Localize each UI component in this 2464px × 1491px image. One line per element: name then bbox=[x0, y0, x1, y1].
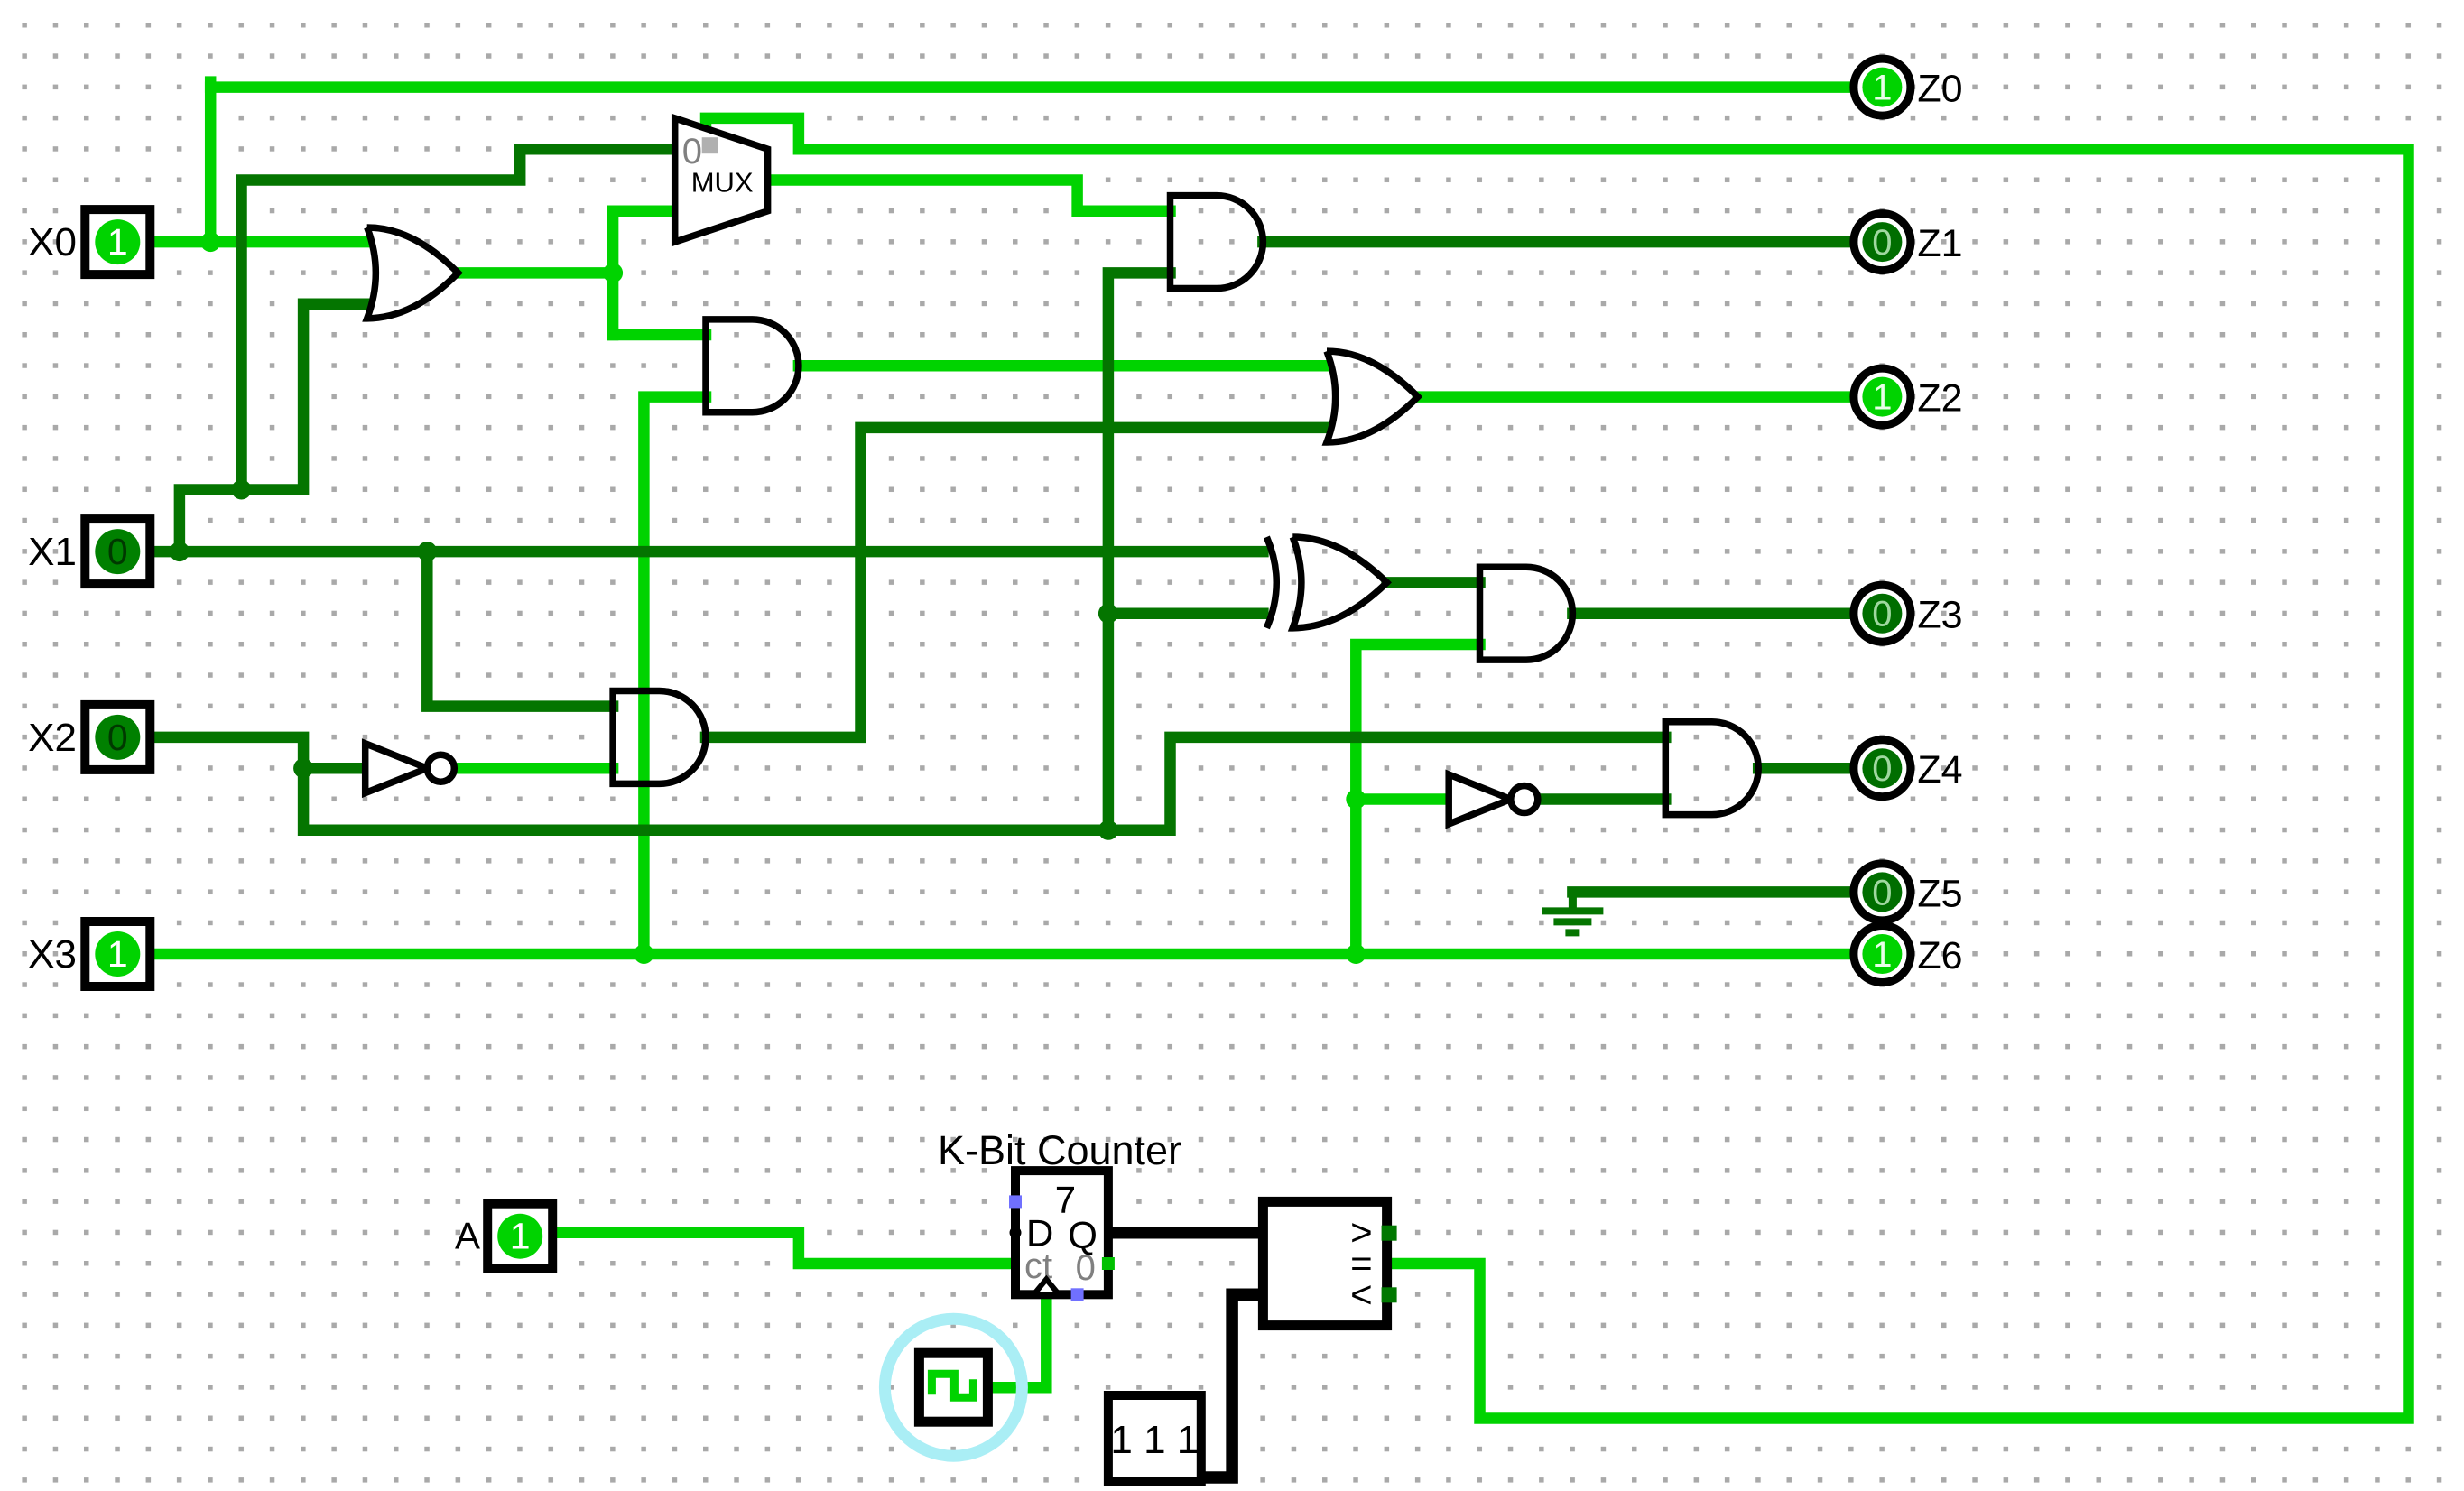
output LED Z2 bbox=[1854, 368, 1963, 425]
svg-text:X1: X1 bbox=[28, 530, 77, 574]
and-gate AND3 (X1,X2) bbox=[613, 690, 706, 783]
svg-text:Z0: Z0 bbox=[1917, 68, 1962, 111]
wire AND3 output up col27 to OR2 bottom input bbox=[706, 428, 1325, 737]
wire X0 output to OR1 top input bbox=[149, 236, 366, 248]
counter D pin bbox=[1010, 1227, 1022, 1238]
wire XOR output to AND-Z3 input bbox=[1387, 577, 1480, 588]
wire branch col35 to XOR bottom input bbox=[1108, 607, 1264, 619]
not-gate NOT1 bbox=[366, 744, 455, 793]
wire X1 branch up row15 bbox=[180, 304, 366, 551]
output LED Z1 bbox=[1854, 214, 1963, 271]
svg-text:1: 1 bbox=[1872, 935, 1892, 975]
comparator U2 box bbox=[1263, 1201, 1386, 1325]
junction X2 col9 row24 bbox=[293, 758, 313, 778]
bus constant 111 to comparator B bbox=[1201, 1294, 1264, 1477]
output LED Z3 bbox=[1854, 585, 1963, 642]
xor-gate XOR1 bbox=[1266, 537, 1386, 628]
wire AND1 output to LED Z1 bbox=[1263, 236, 1853, 248]
input pin X3 bbox=[28, 921, 150, 986]
clock source halo bbox=[885, 1319, 1022, 1456]
svg-text:0: 0 bbox=[1872, 595, 1892, 634]
wire NOT2 output to AND4 bottom input bbox=[1542, 793, 1665, 805]
svg-text:1 1 1: 1 1 1 bbox=[1110, 1418, 1199, 1462]
wire OR1 output to node bbox=[459, 267, 613, 279]
svg-text:X2: X2 bbox=[28, 716, 77, 760]
multiplexer MUX bbox=[675, 118, 768, 242]
counter reset pin (blue) bbox=[1071, 1288, 1084, 1301]
svg-text:1: 1 bbox=[1872, 69, 1892, 108]
wire AND2 output to OR2 top input bbox=[799, 360, 1325, 372]
svg-text:1: 1 bbox=[107, 933, 128, 975]
svg-text:MUX: MUX bbox=[691, 167, 754, 199]
svg-text:<: < bbox=[1350, 1273, 1373, 1315]
svg-text:0: 0 bbox=[1872, 749, 1892, 789]
junction X3 col20 bbox=[634, 944, 653, 964]
junction X1 col13 bbox=[417, 542, 437, 561]
svg-text:Z2: Z2 bbox=[1917, 377, 1962, 421]
wire branch col7 to MUX D0 bbox=[242, 149, 675, 489]
input pin X2 bbox=[28, 705, 150, 770]
and-gate AND2 (mid) bbox=[706, 319, 799, 412]
wire X1 row to XOR top input bbox=[149, 546, 1264, 558]
and-gate AND4 (to Z4) bbox=[1665, 722, 1758, 815]
wire Z0 branch vertical col6 bbox=[205, 88, 217, 243]
wire X2 net col35 vertical to AND1 bottom input bbox=[1108, 273, 1171, 829]
junction X0/Z0 node bbox=[200, 232, 220, 252]
output LED Z4 bbox=[1854, 740, 1963, 797]
or-gate OR2 (to Z2) bbox=[1327, 351, 1418, 442]
svg-text:Z3: Z3 bbox=[1917, 594, 1962, 637]
K-Bit Counter label bbox=[938, 1127, 1181, 1173]
wire X2 net to AND4 top input bbox=[1108, 737, 1665, 830]
not-gate NOT2 bbox=[1449, 774, 1538, 824]
wire NOT1 output to AND3 bottom input bbox=[459, 763, 613, 774]
svg-text:Z6: Z6 bbox=[1917, 934, 1962, 977]
wire AND4 output to LED Z4 bbox=[1758, 763, 1853, 774]
output LED Z5 bbox=[1854, 864, 1963, 921]
comparator greater pin bbox=[1382, 1226, 1397, 1241]
comparator less pin bbox=[1382, 1287, 1397, 1302]
svg-text:1: 1 bbox=[107, 221, 128, 263]
wire MUX output to AND1 top input bbox=[768, 181, 1171, 211]
wire col19 down to AND2 top input bbox=[613, 329, 706, 341]
wire X2 output to col9 bbox=[149, 737, 1108, 830]
svg-text:Z1: Z1 bbox=[1917, 222, 1962, 265]
junction col35 row26 bbox=[1098, 820, 1118, 840]
wire input A to counter enable bbox=[552, 1233, 1015, 1264]
output LED Z0 bbox=[1854, 59, 1963, 116]
junction col7 row15 bbox=[232, 480, 252, 500]
svg-text:A: A bbox=[455, 1215, 480, 1257]
input pin A bbox=[455, 1204, 552, 1269]
clock source CLK bbox=[919, 1353, 987, 1422]
junction OR1 output node bbox=[603, 263, 623, 282]
junction X3 col43 bbox=[1346, 944, 1366, 964]
svg-text:X0: X0 bbox=[28, 220, 77, 264]
svg-text:0: 0 bbox=[1872, 223, 1892, 263]
wire X3 row to LED Z6 bbox=[149, 949, 1853, 960]
input pin X0 bbox=[28, 209, 150, 274]
junction col43 row25 bbox=[1346, 790, 1366, 810]
and-gate AND5 (to Z3) bbox=[1480, 567, 1573, 660]
junction col35 row19 bbox=[1098, 604, 1118, 624]
and-gate AND1 (to Z1) bbox=[1171, 196, 1264, 289]
wire X3 branch col20 up to AND2 bottom input bbox=[644, 397, 706, 954]
svg-text:1: 1 bbox=[510, 1216, 531, 1257]
wire X3 branch col43 up to AND4 bottom input bbox=[1356, 644, 1479, 954]
svg-text:0: 0 bbox=[1872, 873, 1892, 912]
output LED Z6 bbox=[1854, 926, 1963, 983]
or-gate OR1 (X0,X1) bbox=[367, 227, 459, 319]
wire branch col43 to NOT2 input bbox=[1356, 793, 1449, 805]
wire X1 branch col13 to AND3 top input bbox=[427, 551, 613, 707]
constant value 111 bbox=[1108, 1395, 1201, 1482]
svg-text:0: 0 bbox=[107, 531, 128, 572]
counter U1 box bbox=[1015, 1171, 1108, 1294]
svg-text:0: 0 bbox=[1076, 1248, 1096, 1288]
counter carry pin (green) bbox=[1102, 1257, 1115, 1270]
wire Z0 top row to LED Z0 bbox=[210, 82, 1853, 88]
wire node col19 up to MUX D1 bbox=[613, 211, 675, 335]
wire branch to NOT1 input bbox=[303, 763, 366, 774]
bus counter Q to comparator A bbox=[1108, 1227, 1264, 1239]
wire OR2 output to LED Z2 bbox=[1418, 391, 1853, 403]
wire clock to counter clk bbox=[986, 1294, 1046, 1387]
wire AND-Z3 output to LED Z3 bbox=[1572, 607, 1853, 619]
svg-text:1: 1 bbox=[1872, 378, 1892, 418]
counter load pin (blue) bbox=[1009, 1195, 1022, 1208]
svg-text:0: 0 bbox=[107, 717, 128, 758]
svg-text:Z5: Z5 bbox=[1917, 872, 1962, 915]
wire comparator equal output to MUX select (long feedback) bbox=[706, 118, 2409, 1419]
svg-text:Z4: Z4 bbox=[1917, 748, 1962, 792]
ground symbol bbox=[1542, 892, 1603, 932]
junction X1 col5 bbox=[170, 542, 190, 561]
wire ground to LED Z5 bbox=[1572, 886, 1853, 898]
input pin X1 bbox=[28, 519, 150, 584]
svg-text:X3: X3 bbox=[28, 932, 77, 977]
